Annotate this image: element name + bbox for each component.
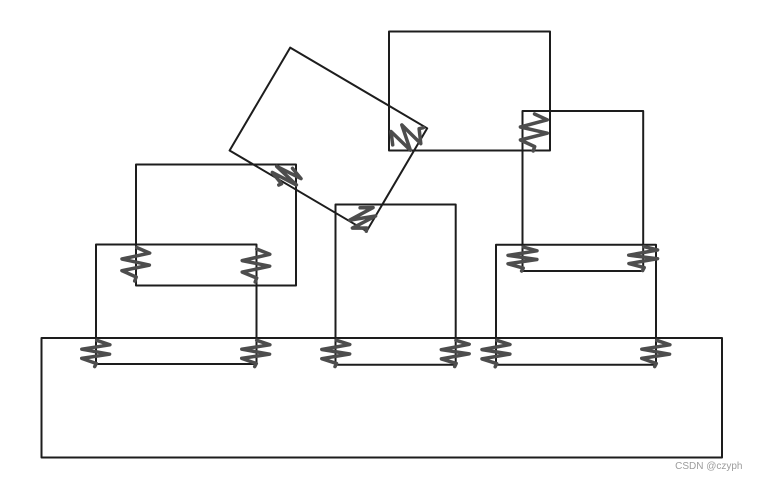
spring S3 (box B3 bottom-left to ground) — [322, 340, 350, 366]
spring S12 (box B7 top-left to box B6 bottom) — [520, 114, 547, 151]
box B7 (right upper block) — [523, 111, 644, 271]
spring S13 (box B7 bottom-left to box B5 top) — [508, 247, 537, 271]
box B5 (right lower block) — [496, 245, 656, 365]
spring S8 (box B1 top-right to box B2 bottom) — [242, 249, 270, 282]
spring S1 (box B1 bottom-left to ground) — [82, 340, 110, 366]
spring S14 (box B7 bottom-right to box B5 top) — [629, 247, 658, 271]
spring S7 (box B2 bottom-left to box B1 top) — [122, 248, 150, 282]
spring S9 (box B2 top-right to box B4 lower edge) — [272, 166, 301, 185]
spring S6 (box B5 bottom-right to ground) — [642, 340, 670, 366]
svg-text:CSDN @czyph: CSDN @czyph — [675, 461, 742, 472]
box B1 (left lower block) — [96, 245, 257, 365]
spring S5 (box B5 bottom-left to ground) — [482, 340, 510, 367]
spring S10 (box B4 bottom corner to box B3 top) — [350, 208, 376, 232]
spring S4 (box B3 bottom-right to ground) — [441, 340, 469, 366]
box B6 (top block) — [389, 32, 550, 151]
spring S11 (box B6 bottom-left to box B4 right corner) — [391, 125, 423, 150]
box B2 (left upper block) — [136, 165, 296, 286]
box B4 (tilted block) — [230, 48, 428, 232]
box B3 (middle lower block) — [336, 205, 456, 365]
ground base — [42, 338, 723, 458]
spring S2 (box B1 bottom-right to ground) — [242, 340, 270, 366]
